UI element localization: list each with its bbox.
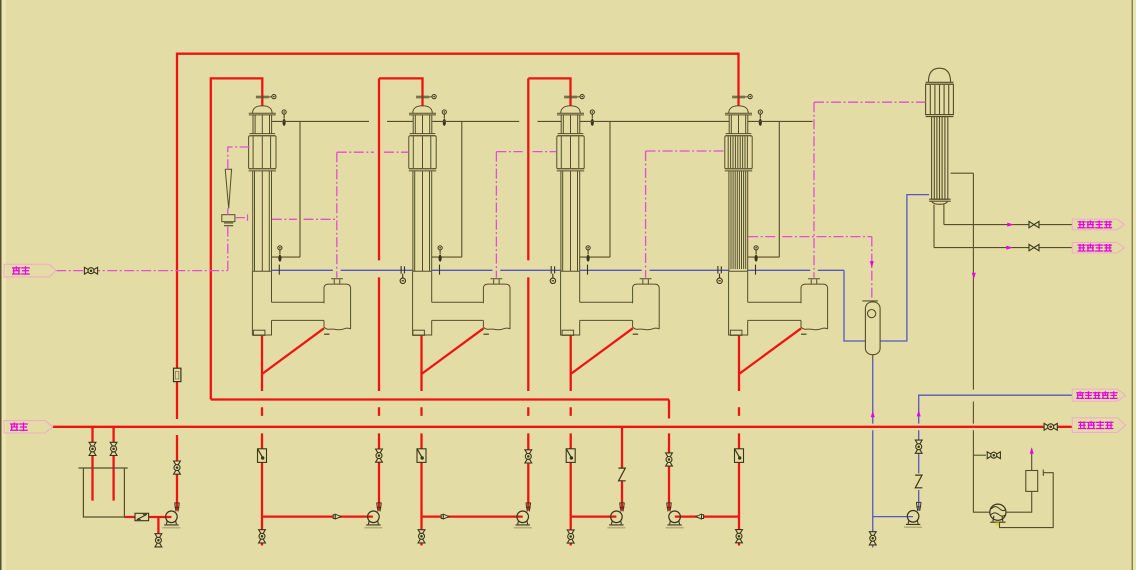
valve V6 pump P2 discharge [376, 449, 383, 462]
wire vapor header dome E1 to dome E2 [272, 120, 413, 122]
wire evaporator E4 concentrate down pipe with cyclone diagonal [739, 328, 801, 545]
wire vapor line dome loop of E3 [580, 121, 610, 257]
instrument TI-22 [438, 246, 442, 275]
flow arrow vacuum line [972, 273, 976, 280]
flowmeter FI3 [566, 449, 575, 463]
check valve CV2 [441, 514, 449, 519]
valve V5 pump P1 drain [155, 534, 162, 547]
vent valve on E3 dome [564, 95, 584, 99]
valve V18 vacuum break [987, 452, 1000, 459]
feed tank T1 [79, 468, 128, 517]
evaporator E2 vessel [409, 106, 484, 336]
instrument TI-42 [754, 246, 758, 275]
cyclone separator S2 [483, 279, 510, 335]
wire vapor stub dome E4 [748, 120, 813, 122]
valve V11 E3 drain [567, 530, 574, 543]
wire E3 concentrate run to pump P4 [571, 515, 617, 517]
flow arrow to separator [870, 261, 874, 268]
instrument TI-21 [442, 110, 446, 126]
wire feed tank outlet to pump P1 [124, 516, 171, 518]
valve V15 product header [1044, 423, 1057, 430]
pump P1 [162, 503, 180, 528]
Z break on P4 riser [618, 468, 625, 481]
wire E2 vapor line to cyclone / E3 heater feed [496, 152, 556, 278]
wire separator bottom drain down pipe [872, 359, 874, 548]
valve V4 pump P1 discharge [174, 461, 181, 474]
check valve CV1 [333, 514, 341, 519]
wire red feed/product main header [53, 426, 1073, 428]
wire blue drop to gas-liquid separator left [844, 270, 865, 341]
valve V3 tank inlet B [110, 442, 117, 455]
instrument TI-41 [758, 110, 762, 126]
wire E2 concentrate run to pump P3 [422, 515, 523, 517]
valve V8 pump P5 discharge [666, 453, 673, 466]
check valve CV3 [696, 514, 704, 519]
wire separator drain run to pump P6 [873, 516, 913, 518]
wire condenser drain to separator right [880, 195, 929, 341]
vacuum pump P7 [990, 504, 1006, 520]
wire vapor line dome loop of E2 [432, 121, 462, 257]
flow arrow condensate riser [917, 410, 921, 417]
strainer F1 [135, 513, 149, 520]
cyclone separator S4 [801, 279, 828, 335]
knockout pot V2 [1026, 471, 1038, 492]
wire E1 vapor takeoff [272, 218, 337, 220]
wire pump P5 discharge riser from upper header [668, 400, 670, 511]
evaporator E3 vessel [557, 106, 633, 336]
instrument TI-11 [282, 110, 286, 126]
flag to product tank (去成品罐) [1072, 418, 1125, 433]
pump P2 [364, 503, 382, 528]
evaporator E1 vessel [249, 106, 324, 336]
wire pump P2 riser to evaporator E2 top [379, 78, 423, 510]
steam trap ST3 [717, 266, 722, 284]
wire pump P1 discharge riser lower segment [176, 435, 178, 511]
flow arrow separator drain [871, 411, 875, 418]
wire evaporator E1 concentrate down pipe with cyclone diagonal [262, 328, 324, 545]
steam control set FV1 [222, 169, 235, 226]
instrument TI-31 [590, 110, 594, 126]
valve V17 cooling return [1029, 244, 1039, 250]
valve V7 pump P3 discharge [525, 450, 532, 463]
left page edge [0, 0, 2, 570]
gas-liquid separator V1 [862, 301, 880, 359]
valve V2 tank inlet A [89, 442, 96, 455]
flag feed inlet (物料) [4, 421, 53, 433]
pump P4 [607, 503, 625, 528]
steam trap ST1 [400, 266, 405, 284]
instrument TI-32 [586, 246, 590, 275]
flowmeter FI1 [258, 449, 267, 463]
pump P5 [666, 503, 684, 528]
flowmeter FI2 [417, 449, 426, 463]
wire cooling water supply line [944, 224, 1072, 226]
wire E4 concentrate run to pump P5 [675, 515, 739, 517]
cyclone separator S3 [633, 279, 660, 335]
wire vapor line dome loop of E1 [272, 121, 300, 257]
valve V16 cooling supply [1029, 221, 1039, 227]
wire pump P1 suction drain stub [157, 517, 159, 546]
vent valve on E4 dome [732, 95, 752, 99]
wire pot vent stub [1031, 449, 1033, 471]
wire vapor header dome E3 to dome E4 [580, 120, 729, 122]
wire E3 vapor line to cyclone / E4 heater feed [646, 151, 725, 278]
wire pump P3 riser to evaporator E3 top [528, 78, 570, 510]
pump P3 [514, 503, 532, 528]
sight glass SG1 on P1 riser [174, 368, 181, 381]
right border line [1131, 0, 1133, 570]
wire feed tank inlet drop B [112, 427, 114, 501]
wire vacuum branch with valve stub [973, 454, 986, 456]
wire evaporator E2 concentrate down pipe with cyclone diagonal [422, 328, 484, 545]
wire E4 vapor branch to separator [748, 237, 872, 301]
instrument TI-12 [278, 246, 282, 275]
wire vapor header dome E2 to dome E3 [432, 120, 561, 122]
wire evaporator E3 concentrate down pipe with cyclone diagonal [571, 328, 633, 545]
evaporator E4 vessel [725, 106, 801, 336]
wire raw steam line from flag to control set [56, 226, 228, 271]
wire E4 vapor takeoff to condenser [814, 102, 926, 278]
wire inverted-U feed line into evaporator E1 [211, 78, 262, 399]
wire steam line from control set to E1 heater [228, 147, 253, 215]
valve V1 steam inlet [84, 267, 97, 274]
wire condenser vent to vacuum pump [951, 173, 990, 512]
valve V10 E2 drain [418, 530, 425, 543]
condenser C1 shell [926, 68, 954, 247]
wire pump P4 discharge riser to product header [621, 427, 623, 511]
Z break on P6 riser [915, 475, 922, 488]
wire cooling water return line [934, 247, 1072, 249]
flowmeter FI4 [735, 449, 744, 463]
flow arrow cooling return [1006, 246, 1013, 250]
wire blue condensate header along heater bottoms [272, 269, 844, 271]
wire red steam-transfer top header with feed riser and 4th-effect drop [177, 54, 739, 419]
valve V14 pump P6 discharge [915, 440, 922, 453]
wire E1 concentrate run to pump P2 [262, 515, 373, 517]
wire vacuum pump discharge loop [1000, 470, 1054, 528]
flow arrow cooling supply [1007, 223, 1014, 227]
flag to condensate tank (去凝结水罐) [1072, 389, 1125, 401]
flag cooling water supply (冷却水来) [1072, 219, 1124, 230]
wire feed tank inlet drop A [91, 427, 93, 501]
valve V9 E1 drain [259, 530, 266, 543]
wire red concentrate header (upper) [211, 398, 669, 400]
valve V13 separator drain [869, 532, 876, 545]
flow arrow pot vent [1030, 447, 1034, 454]
cyclone separator S1 [324, 279, 351, 335]
vent valve on E2 dome [416, 95, 436, 99]
flag cooling water return (冷却水回) [1072, 242, 1124, 253]
vent valve on E1 dome [256, 95, 276, 99]
flag steam inlet (蒸汽) [4, 264, 56, 277]
wire vapor line dome loop of E4 [748, 121, 779, 257]
valve V12 E4 drain [736, 530, 743, 543]
wire E1 vapor drop to cyclone / E2 heater feed [337, 152, 409, 278]
pump P6 [904, 502, 922, 527]
wire pump P6 condensate riser and header to condensate-tank flag [919, 395, 1073, 510]
steam trap ST2 [550, 266, 555, 284]
